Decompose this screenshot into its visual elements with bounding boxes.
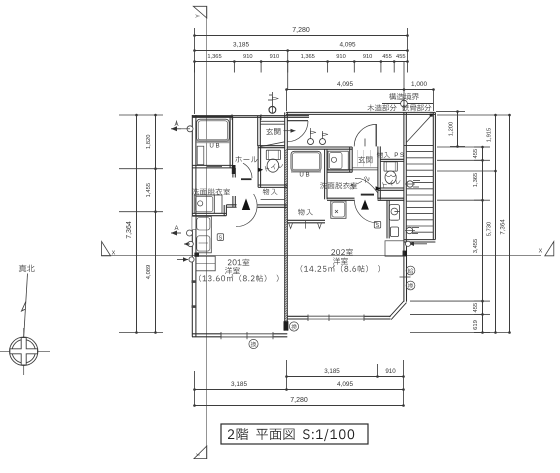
- window tick 202 right: [400, 276, 411, 278]
- svg-text:3,185: 3,185: [233, 41, 249, 48]
- Y-axis grid line: [206, 6, 208, 459]
- stair vent symbol 2: [406, 227, 412, 233]
- window 202 south: [308, 317, 364, 319]
- label monoire 202: [298, 209, 313, 216]
- wall 202/landing top: [286, 111, 435, 113]
- label toilet 202: [382, 178, 401, 188]
- svg-text:7,280: 7,280: [290, 397, 308, 404]
- stair bottom wall: [404, 239, 435, 241]
- dim line module widths: [195, 61, 408, 63]
- wall UB201 bottom: [192, 164, 233, 166]
- bathtub 201: [197, 119, 230, 141]
- right dim 1,915/5,730: [495, 115, 497, 333]
- stair vent symbol 1: [407, 181, 413, 187]
- svg-text:5,730: 5,730: [487, 222, 493, 237]
- fridge 201: [196, 256, 215, 271]
- window left wall: [192, 217, 196, 230]
- svg-text:455: 455: [396, 54, 406, 60]
- svg-text:S: S: [376, 223, 380, 229]
- svg-text:455: 455: [473, 303, 479, 313]
- vent circle 202 e2: [406, 281, 415, 290]
- label monoire PS: [377, 152, 390, 158]
- svg-text:P S: P S: [394, 152, 404, 159]
- corner block 201: [194, 253, 199, 257]
- stair top corner dot: [430, 114, 433, 117]
- label room 201 yoshitsu: [225, 267, 240, 274]
- X-axis grid line: [101, 255, 541, 257]
- svg-text:1,365: 1,365: [473, 173, 479, 188]
- label room 202 area: [301, 265, 380, 273]
- svg-text:619: 619: [473, 320, 479, 330]
- bottom dim row1: [287, 376, 404, 378]
- stair left wall: [403, 112, 405, 242]
- north needle line: [24, 274, 28, 338]
- structural boundary line: [382, 103, 433, 105]
- wall closet201 bottom: [258, 204, 288, 206]
- wall left exterior: [191, 115, 193, 337]
- label kozokyokai: [389, 93, 419, 100]
- entry arrow 202: [376, 186, 381, 190]
- kitchen sink 202: [331, 201, 346, 218]
- compass crosshair: [0, 350, 50, 352]
- right dim 7,364: [509, 115, 511, 333]
- north needle barb: [22, 302, 26, 312]
- svg-text:910: 910: [336, 54, 346, 60]
- wall 201 bottom: [192, 333, 287, 335]
- label monoire 201: [263, 189, 278, 196]
- left dim line 7,364: [136, 115, 138, 333]
- label room 202 yoshitsu: [333, 258, 348, 265]
- wall washroom201 step: [226, 204, 236, 206]
- wall PS left: [377, 146, 379, 199]
- bottom dim row2: [195, 389, 404, 391]
- label genkan 201: [266, 128, 280, 135]
- X-axis left flag: [102, 242, 111, 256]
- label senmendatsuiishitsu 202: [320, 182, 357, 189]
- svg-text:4,089: 4,089: [146, 265, 152, 280]
- pillar mark left wall a: [192, 280, 197, 283]
- svg-text:X: X: [112, 251, 116, 257]
- kitchen 201: [196, 216, 211, 252]
- bottom dim ext lines: [194, 371, 196, 406]
- bottom dim row3: [195, 405, 404, 407]
- vent on left wall u201: [187, 126, 193, 132]
- label mokuzo/tekkotsu: [368, 104, 397, 111]
- wall UB201 top thick: [192, 116, 233, 118]
- dim line total 7,280: [195, 35, 408, 37]
- dim 1,200: [457, 112, 459, 147]
- wall 201 top: [192, 115, 309, 117]
- wall hall202 bottom left: [327, 197, 355, 199]
- svg-text:3,455: 3,455: [473, 239, 479, 254]
- Y-axis bottom flag: [194, 446, 207, 459]
- svg-text:910: 910: [363, 54, 373, 60]
- svg-text:1,365: 1,365: [207, 54, 221, 60]
- wall washroom202 bottom: [327, 169, 352, 171]
- wall genkan201 left: [257, 116, 259, 146]
- door 202 entrance arc: [354, 124, 376, 146]
- wall hall201 left lower: [232, 196, 234, 207]
- section marker A upper: [171, 128, 181, 130]
- stair landing edge: [404, 144, 433, 146]
- arrow under stairs: [409, 243, 427, 245]
- door leaf washroom 201: [241, 178, 252, 180]
- door arc washroom 201: [243, 163, 252, 178]
- svg-text:Y: Y: [196, 14, 202, 18]
- label shinboku: [19, 265, 35, 273]
- wall toilet201 top: [258, 145, 285, 147]
- svg-text:A: A: [174, 226, 178, 232]
- left dim modules: [155, 115, 157, 333]
- X-axis right flag: [545, 242, 554, 256]
- wall hall201 left upper: [232, 168, 234, 178]
- svg-text:1,455: 1,455: [146, 183, 152, 198]
- genkan 202 floor: [357, 150, 359, 167]
- door arc room 202: [354, 200, 377, 223]
- wall hall202 bottom right: [378, 197, 404, 199]
- door leaf hall202: [361, 194, 374, 196]
- svg-text:U B: U B: [299, 172, 309, 179]
- party wall 201/202 hatched: [284, 112, 286, 330]
- closet202 hangers: [289, 223, 293, 229]
- title text: [228, 428, 354, 441]
- door arc room 201: [236, 194, 257, 227]
- vent circle 202 e1: [406, 266, 415, 275]
- switch box S 202: [374, 221, 380, 228]
- wall toilet201 left: [257, 146, 259, 187]
- label genkan 202: [358, 156, 372, 163]
- wall 202 bottom: [287, 315, 391, 317]
- compass outer circle: [10, 337, 38, 365]
- compass cross arms: [10, 338, 38, 366]
- pillar mark left wall b: [192, 305, 197, 308]
- svg-text:910: 910: [270, 54, 280, 60]
- title box: [221, 424, 368, 444]
- wall UB202 top: [287, 146, 352, 148]
- svg-text:3,185: 3,185: [231, 381, 247, 388]
- wall 202 diagonal: [389, 301, 404, 317]
- compass inner circle: [12, 340, 35, 363]
- box 202: [390, 227, 398, 237]
- dim ext line left: [194, 28, 196, 114]
- wall washroom201 bottom: [192, 212, 226, 214]
- wall PS bottom: [380, 158, 404, 160]
- supply arrow left wall: [177, 259, 188, 261]
- label hall 201: [235, 156, 257, 162]
- label hall 202: [348, 175, 370, 191]
- stair void diagonal: [406, 115, 431, 142]
- right dim ext lines: [437, 114, 510, 116]
- stair right wall: [432, 112, 434, 239]
- vent circle 201 south: [249, 339, 258, 348]
- washbasin 201: [194, 195, 222, 213]
- svg-text:1,365: 1,365: [301, 54, 315, 60]
- svg-text:910: 910: [243, 54, 253, 60]
- svg-text:1,200: 1,200: [448, 122, 454, 137]
- right dim modules: [482, 147, 484, 333]
- dim line 3,185 / 4,095: [195, 50, 408, 52]
- wall fixtures 202 left: [386, 200, 388, 238]
- svg-text:910: 910: [385, 368, 396, 375]
- Y-axis top flag: [193, 6, 207, 18]
- toilet fixture 202: [384, 162, 397, 171]
- svg-text:1,820: 1,820: [146, 135, 152, 150]
- kitchen faucet 201: [188, 241, 193, 246]
- stair treads: [406, 151, 433, 153]
- svg-text:7,364: 7,364: [126, 221, 133, 239]
- wall closet202 bottom: [287, 219, 325, 221]
- svg-text:U B: U B: [209, 143, 219, 150]
- svg-text:455: 455: [382, 54, 392, 60]
- svg-text:7,280: 7,280: [292, 27, 310, 34]
- label room 202 no: [331, 249, 353, 256]
- door frame block hall: [232, 165, 236, 174]
- svg-text:1,915: 1,915: [487, 128, 493, 143]
- door arc washroom 202: [355, 178, 378, 193]
- svg-text:455: 455: [473, 149, 479, 159]
- svg-text:1,000: 1,000: [411, 81, 427, 88]
- svg-text:4,095: 4,095: [337, 81, 353, 88]
- entry triangle 202: [361, 200, 369, 210]
- svg-text:4,095: 4,095: [340, 41, 356, 48]
- svg-text:4,095: 4,095: [337, 381, 353, 388]
- wall toilet201 bottom: [258, 184, 287, 186]
- closet201 pole: [261, 199, 285, 201]
- vent top wall 201: [269, 106, 276, 113]
- dim line 4,095+1,000: [287, 89, 434, 91]
- door 202 entrance leaf: [375, 124, 377, 146]
- bathtub 202: [291, 151, 321, 171]
- genkan 201 step lines: [260, 120, 284, 122]
- wall toilet202 bottom: [378, 187, 404, 189]
- door 202 swing dash: [364, 139, 366, 147]
- label room 201 no: [228, 259, 250, 266]
- washbasin 202: [328, 151, 348, 170]
- wall 202 right: [403, 242, 405, 302]
- washer 202: [389, 205, 399, 221]
- wall UB201 right: [229, 116, 231, 168]
- shower panel 201: [197, 146, 204, 164]
- svg-text:S: S: [219, 235, 223, 241]
- window 201 south: [221, 334, 273, 337]
- junction dash a: [231, 114, 233, 120]
- dim ext line right: [407, 28, 409, 61]
- vent circle 202 sw: [289, 322, 298, 331]
- stair base block: [403, 251, 407, 257]
- party wall base block: [284, 321, 289, 330]
- label room 201 area: [199, 274, 278, 282]
- svg-text:3,185: 3,185: [324, 368, 340, 375]
- wall genkan202 left: [349, 147, 351, 172]
- door 201 entrance arc: [287, 121, 308, 142]
- label toilet 201: [265, 162, 284, 172]
- junction dash b: [260, 114, 262, 120]
- porch under stairs: [385, 241, 404, 256]
- svg-text:Y: Y: [196, 453, 202, 457]
- section marker A lower: [171, 232, 181, 234]
- entry triangle 201: [242, 198, 250, 210]
- entry arrow toilet 201: [258, 168, 263, 172]
- door 201 entrance leaf: [287, 120, 308, 122]
- label senmendatsuiishitsu 201: [192, 188, 230, 195]
- dim ext 3185: [287, 50, 289, 90]
- toilet fixture 201: [266, 150, 280, 159]
- vent flags UB202: [308, 139, 314, 145]
- wall UB202 right: [324, 149, 326, 199]
- switch box S 201: [217, 234, 223, 241]
- svg-text:X: X: [539, 249, 543, 255]
- genkan 201 slope line: [261, 142, 285, 147]
- svg-text:7,364: 7,364: [500, 219, 507, 235]
